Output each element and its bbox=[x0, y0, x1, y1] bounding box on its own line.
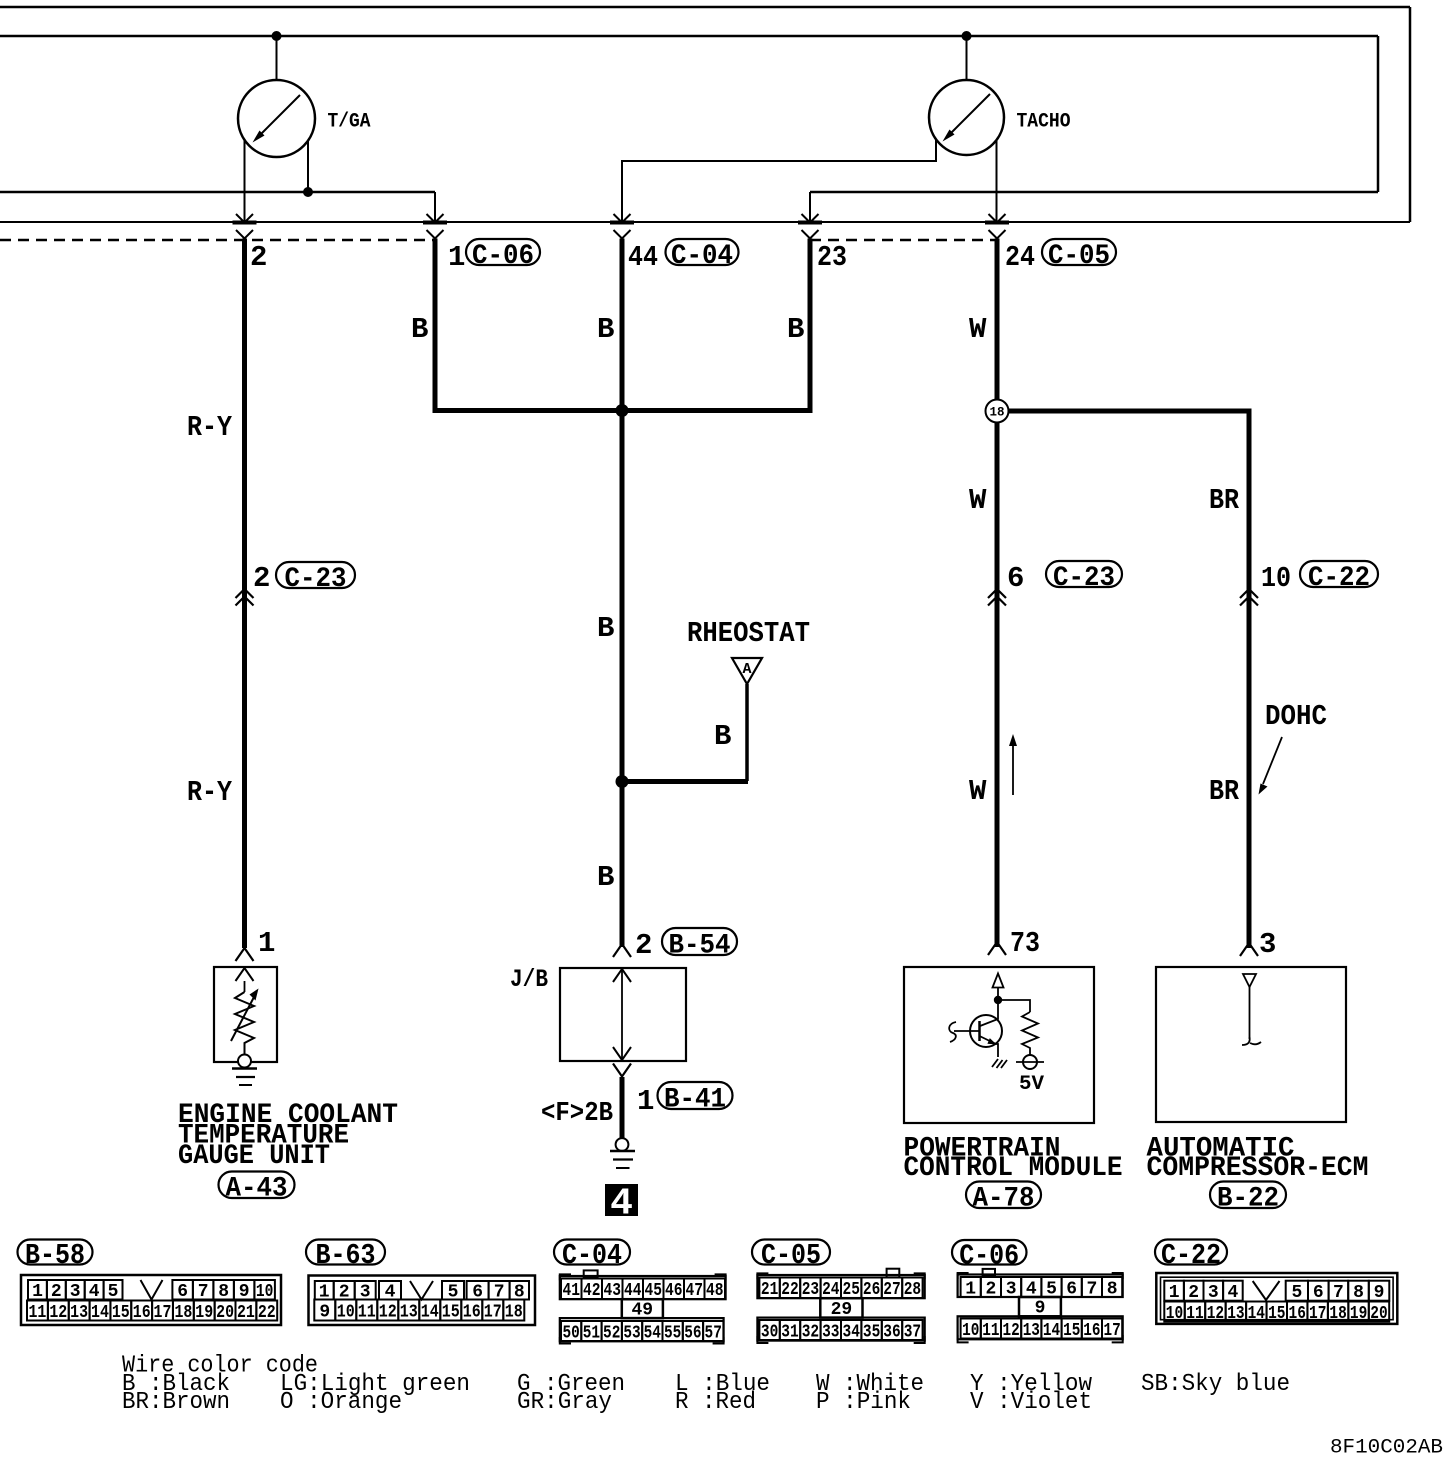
svg-text:6: 6 bbox=[177, 1282, 188, 1302]
svg-text:27: 27 bbox=[883, 1280, 900, 1300]
label 2 C-23 bbox=[253, 562, 270, 595]
svg-text:73: 73 bbox=[1010, 927, 1040, 960]
powertrain control module box A-78 bbox=[904, 967, 1094, 1123]
wire W vertical x997 lower bbox=[995, 423, 1000, 948]
svg-text:21: 21 bbox=[237, 1303, 255, 1323]
label DOHC bbox=[1265, 700, 1327, 733]
svg-text:6: 6 bbox=[1007, 562, 1024, 595]
svg-text:34: 34 bbox=[843, 1323, 861, 1343]
svg-text:24: 24 bbox=[1005, 241, 1035, 274]
svg-text:C-23: C-23 bbox=[1053, 563, 1115, 594]
svg-text:35: 35 bbox=[863, 1323, 880, 1343]
5V supply symbol bbox=[1016, 1055, 1044, 1069]
connector ref C-23 left bbox=[276, 562, 355, 595]
svg-text:2: 2 bbox=[1188, 1283, 1199, 1303]
svg-text:11: 11 bbox=[358, 1303, 376, 1323]
connector ref A-78 bbox=[966, 1182, 1041, 1215]
svg-text:6: 6 bbox=[1313, 1283, 1324, 1303]
ground terminal circle J/B bbox=[616, 1138, 629, 1151]
connector 10 C-22 chevrons bbox=[1240, 589, 1258, 606]
svg-text:B: B bbox=[787, 313, 804, 346]
svg-text:J/B: J/B bbox=[510, 965, 548, 994]
ground J/B bbox=[610, 1151, 635, 1168]
svg-text:5: 5 bbox=[1291, 1283, 1302, 1303]
rheostat terminal A triangle bbox=[732, 658, 762, 684]
svg-text:B: B bbox=[597, 612, 614, 645]
label wire color BR lower bbox=[1209, 775, 1240, 808]
svg-text:15: 15 bbox=[1063, 1321, 1080, 1341]
connector ref B-41 bbox=[658, 1082, 733, 1115]
connector arrow pin 1 C-06 bbox=[423, 214, 447, 239]
wire W vertical x997 upper bbox=[995, 239, 1000, 401]
label pin 44 bbox=[628, 241, 658, 274]
svg-text:9: 9 bbox=[319, 1303, 330, 1323]
svg-text:16: 16 bbox=[463, 1303, 481, 1323]
svg-text:15: 15 bbox=[112, 1303, 130, 1323]
wire to pull-up resistor bbox=[998, 1000, 1030, 1012]
svg-text:5: 5 bbox=[108, 1282, 119, 1302]
svg-text:C-04: C-04 bbox=[562, 1239, 622, 1272]
svg-text:COMPRESSOR-ECM: COMPRESSOR-ECM bbox=[1147, 1153, 1369, 1184]
connector ref C-06 top bbox=[466, 239, 540, 272]
svg-text:14: 14 bbox=[1043, 1321, 1060, 1341]
svg-text:18: 18 bbox=[989, 406, 1004, 420]
chevron into A-43 box bbox=[236, 968, 254, 981]
svg-text:11: 11 bbox=[1186, 1304, 1204, 1324]
connector ref C-04 bottom bbox=[554, 1239, 630, 1272]
svg-text:11: 11 bbox=[982, 1321, 999, 1341]
svg-text:DOHC: DOHC bbox=[1265, 700, 1327, 733]
connector ref C-22 mid bbox=[1300, 561, 1378, 594]
variable resistor A-43 bbox=[231, 981, 259, 1055]
svg-text:12: 12 bbox=[1003, 1321, 1020, 1341]
connector ref B-54 bbox=[662, 928, 737, 961]
label 1 B-41 bbox=[637, 1085, 654, 1118]
legend wire color code bbox=[122, 1353, 1290, 1417]
svg-text:R-Y: R-Y bbox=[187, 776, 233, 809]
splice circle 18 bbox=[986, 400, 1009, 423]
svg-text:3: 3 bbox=[1208, 1283, 1219, 1303]
svg-text:GAUGE UNIT: GAUGE UNIT bbox=[178, 1141, 330, 1172]
svg-text:26: 26 bbox=[863, 1280, 880, 1300]
svg-text:8: 8 bbox=[1107, 1280, 1118, 1300]
wire R-Y vertical x245 bbox=[242, 239, 247, 949]
svg-text:2: 2 bbox=[250, 241, 267, 274]
svg-text:16: 16 bbox=[1083, 1321, 1100, 1341]
svg-text:C-22: C-22 bbox=[1308, 563, 1370, 594]
svg-text:B: B bbox=[597, 861, 614, 894]
gauge TACHO bbox=[929, 80, 1004, 155]
svg-text:V :Violet: V :Violet bbox=[970, 1389, 1092, 1416]
connector ref C-23 right bbox=[1046, 561, 1122, 594]
label pin 23 bbox=[817, 241, 847, 274]
wire rheostat drop bbox=[745, 684, 749, 781]
wire through J/B bbox=[613, 968, 631, 1061]
svg-text:43: 43 bbox=[603, 1281, 621, 1301]
resistor pull-up bbox=[1022, 1012, 1038, 1055]
svg-text:18: 18 bbox=[505, 1303, 523, 1323]
svg-text:1: 1 bbox=[448, 241, 465, 274]
gauge T/GA bbox=[238, 80, 315, 157]
label wire color W lower bbox=[969, 775, 987, 808]
svg-text:23: 23 bbox=[817, 241, 847, 274]
wire BR branch bbox=[1009, 411, 1250, 948]
label AUTOMATIC COMPRESSOR-ECM bbox=[1147, 1134, 1369, 1185]
document code 8F10C02AB bbox=[1330, 1437, 1443, 1460]
connector ref B-63 bottom bbox=[306, 1239, 385, 1272]
svg-text:31: 31 bbox=[781, 1323, 799, 1343]
svg-text:56: 56 bbox=[684, 1324, 701, 1344]
svg-text:10: 10 bbox=[962, 1321, 979, 1341]
svg-text:19: 19 bbox=[195, 1303, 213, 1323]
automatic compressor ECM box B-22 bbox=[1156, 967, 1346, 1122]
svg-text:8: 8 bbox=[1353, 1283, 1364, 1303]
svg-text:15: 15 bbox=[442, 1303, 460, 1323]
svg-text:BR:Brown: BR:Brown bbox=[122, 1389, 230, 1416]
svg-text:4: 4 bbox=[89, 1282, 100, 1302]
svg-text:8F10C02AB: 8F10C02AB bbox=[1330, 1437, 1443, 1460]
connector arrow pin 23 bbox=[798, 214, 822, 239]
label 6 C-23 bbox=[1007, 562, 1024, 595]
connector arrow 73 PCM bbox=[988, 942, 1006, 955]
wire dashed harness boundary bbox=[0, 239, 997, 242]
svg-text:12: 12 bbox=[49, 1303, 67, 1323]
svg-text:C-06: C-06 bbox=[472, 241, 534, 272]
svg-text:B: B bbox=[597, 313, 614, 346]
connector arrow 3 ECM bbox=[1240, 943, 1258, 956]
label POWERTRAIN CONTROL MODULE bbox=[904, 1134, 1123, 1185]
svg-text:BR: BR bbox=[1209, 775, 1240, 808]
svg-text:50: 50 bbox=[562, 1324, 579, 1344]
svg-text:17: 17 bbox=[154, 1303, 172, 1323]
svg-text:1: 1 bbox=[1169, 1283, 1180, 1303]
wire pin23 lead bbox=[809, 192, 811, 221]
label RHEOSTAT bbox=[687, 617, 810, 650]
label ENGINE COOLANT TEMPERATURE GAUGE UNIT bbox=[178, 1100, 398, 1172]
ECM input triangle and probe bbox=[1242, 974, 1261, 1045]
wire bus bottom thin line bbox=[0, 221, 1410, 223]
svg-text:1: 1 bbox=[258, 927, 275, 960]
svg-text:18: 18 bbox=[1329, 1304, 1346, 1324]
connector pinout C-04 bbox=[560, 1270, 726, 1343]
svg-text:4: 4 bbox=[1227, 1283, 1238, 1303]
svg-text:13: 13 bbox=[400, 1303, 418, 1323]
wire bus top line bbox=[0, 7, 1410, 222]
connector pinout B-63 bbox=[309, 1276, 536, 1326]
ground ref black box 4 bbox=[605, 1183, 638, 1226]
connector arrow pin 44 C-04 bbox=[610, 214, 634, 239]
connector ref C-05 bottom bbox=[752, 1239, 830, 1272]
svg-text:17: 17 bbox=[484, 1303, 502, 1323]
svg-text:20: 20 bbox=[1370, 1304, 1387, 1324]
svg-text:46: 46 bbox=[665, 1281, 683, 1301]
svg-text:47: 47 bbox=[685, 1281, 703, 1301]
svg-text:20: 20 bbox=[216, 1303, 234, 1323]
svg-text:B-58: B-58 bbox=[25, 1239, 85, 1272]
svg-text:7: 7 bbox=[1086, 1280, 1097, 1300]
svg-text:<F>2B: <F>2B bbox=[541, 1099, 613, 1129]
svg-text:22: 22 bbox=[258, 1303, 276, 1323]
svg-text:A-43: A-43 bbox=[226, 1174, 288, 1205]
label pin 3 bbox=[1259, 928, 1276, 961]
connector arrow pin 1 A-43 bbox=[236, 948, 254, 961]
svg-text:41: 41 bbox=[562, 1281, 580, 1301]
label wire color R-Y upper bbox=[187, 411, 233, 444]
svg-text:B: B bbox=[411, 313, 428, 346]
svg-text:12: 12 bbox=[1207, 1304, 1224, 1324]
label 10 C-22 bbox=[1261, 562, 1291, 595]
svg-text:B-54: B-54 bbox=[669, 930, 731, 961]
svg-text:GR:Gray: GR:Gray bbox=[517, 1389, 612, 1416]
svg-text:53: 53 bbox=[623, 1324, 640, 1344]
svg-text:2: 2 bbox=[635, 929, 652, 962]
svg-text:3: 3 bbox=[1259, 928, 1276, 961]
wire B from pin1 to junction bbox=[435, 239, 622, 411]
svg-text:10: 10 bbox=[1261, 562, 1291, 595]
svg-text:28: 28 bbox=[904, 1280, 921, 1300]
svg-text:16: 16 bbox=[133, 1303, 151, 1323]
label wire color B pin44 bbox=[597, 313, 614, 346]
svg-text:C-05: C-05 bbox=[1048, 241, 1110, 272]
svg-text:RHEOSTAT: RHEOSTAT bbox=[687, 617, 810, 650]
ground terminal circle A-43 bbox=[238, 1055, 251, 1068]
svg-text:13: 13 bbox=[1227, 1304, 1244, 1324]
svg-text:1: 1 bbox=[32, 1282, 43, 1302]
connector ref B-22 bbox=[1210, 1182, 1286, 1215]
svg-text:48: 48 bbox=[706, 1281, 724, 1301]
svg-text:54: 54 bbox=[644, 1324, 661, 1344]
connector arrow 2 B-54 bbox=[613, 944, 631, 957]
svg-text:4: 4 bbox=[610, 1183, 633, 1226]
label pin 2 bbox=[250, 241, 267, 274]
wire TACHO bottom-right lead bbox=[996, 140, 998, 221]
label pin 1 A-43 bbox=[258, 927, 275, 960]
wire rheostat horizontal bbox=[622, 779, 748, 784]
junction dot rheostat bbox=[616, 775, 629, 788]
svg-text:9: 9 bbox=[239, 1282, 250, 1302]
connector ref C-04 top bbox=[666, 239, 739, 272]
svg-text:18: 18 bbox=[174, 1303, 192, 1323]
svg-text:8: 8 bbox=[218, 1282, 229, 1302]
connector pinout B-58 bbox=[21, 1275, 281, 1325]
label wire color B mid bbox=[597, 612, 614, 645]
svg-text:10: 10 bbox=[337, 1303, 355, 1323]
svg-text:SB:Sky blue: SB:Sky blue bbox=[1141, 1371, 1290, 1398]
connector arrow 1 B-41 bbox=[613, 1064, 631, 1077]
svg-text:1: 1 bbox=[637, 1085, 654, 1118]
PCM input triangle bbox=[993, 974, 1004, 988]
svg-text:33: 33 bbox=[822, 1323, 839, 1343]
junction dot node y192 bbox=[303, 187, 313, 197]
svg-text:13: 13 bbox=[70, 1303, 88, 1323]
svg-text:W: W bbox=[969, 484, 987, 517]
svg-text:51: 51 bbox=[583, 1324, 600, 1344]
wire left inner horizontal bbox=[0, 191, 435, 194]
svg-text:W: W bbox=[969, 775, 987, 808]
label wire color B pin1 bbox=[411, 313, 428, 346]
svg-text:13: 13 bbox=[1023, 1321, 1040, 1341]
svg-text:O :Orange: O :Orange bbox=[280, 1389, 402, 1416]
wire B from pin23 to junction bbox=[622, 239, 810, 411]
svg-text:11: 11 bbox=[28, 1303, 46, 1323]
wire B-41 stub bbox=[620, 1077, 625, 1138]
svg-text:7: 7 bbox=[198, 1282, 209, 1302]
junction dot T/GA top bbox=[272, 31, 282, 41]
connector pinout C-05 bbox=[757, 1269, 924, 1343]
svg-text:15: 15 bbox=[1268, 1304, 1285, 1324]
label pin 73 bbox=[1010, 927, 1040, 960]
svg-text:R :Red: R :Red bbox=[675, 1389, 756, 1416]
wire TACHO top lead bbox=[966, 36, 968, 80]
DOHC pointer arrow bbox=[1259, 737, 1283, 795]
label wire color R-Y lower bbox=[187, 776, 233, 809]
connector 2 C-23 chevrons bbox=[236, 589, 254, 606]
svg-text:10: 10 bbox=[256, 1282, 274, 1302]
connector arrow pin 24 C-05 bbox=[985, 214, 1009, 239]
svg-text:10: 10 bbox=[1166, 1304, 1183, 1324]
label pin 1 bbox=[448, 241, 465, 274]
svg-text:A: A bbox=[742, 661, 751, 678]
svg-text:C-05: C-05 bbox=[761, 1239, 821, 1272]
svg-text:C-23: C-23 bbox=[285, 564, 347, 595]
svg-text:42: 42 bbox=[583, 1281, 601, 1301]
svg-text:57: 57 bbox=[705, 1324, 722, 1344]
connector 6 C-23 chevrons bbox=[988, 589, 1006, 606]
label wire color B lower bbox=[597, 861, 614, 894]
label 5V bbox=[1019, 1073, 1044, 1096]
svg-text:19: 19 bbox=[1350, 1304, 1367, 1324]
node PCM collector bbox=[994, 988, 1002, 1005]
svg-text:TACHO: TACHO bbox=[1017, 111, 1071, 134]
label wire color W mid bbox=[969, 484, 987, 517]
connector ref C-05 top bbox=[1042, 239, 1116, 272]
connector ref C-22 bottom bbox=[1155, 1239, 1227, 1272]
svg-text:14: 14 bbox=[421, 1303, 439, 1323]
flow arrow up W wire bbox=[1009, 734, 1017, 795]
label TACHO bbox=[1017, 111, 1071, 134]
svg-text:30: 30 bbox=[761, 1323, 778, 1343]
svg-text:B-22: B-22 bbox=[1217, 1184, 1279, 1215]
ECT gauge unit box A-43 bbox=[214, 967, 277, 1062]
ground PCM hatched bbox=[992, 1059, 1007, 1068]
svg-text:2: 2 bbox=[253, 562, 270, 595]
svg-text:37: 37 bbox=[904, 1323, 921, 1343]
connector pinout C-06 bbox=[958, 1269, 1123, 1343]
svg-text:C-06: C-06 bbox=[959, 1239, 1019, 1272]
label wire color BR upper bbox=[1209, 484, 1240, 517]
svg-text:B: B bbox=[714, 720, 731, 753]
svg-text:B-63: B-63 bbox=[316, 1239, 376, 1272]
svg-text:C-22: C-22 bbox=[1161, 1239, 1221, 1272]
junction dot TACHO top bbox=[962, 31, 972, 41]
label wire color W pin24 bbox=[969, 313, 987, 346]
svg-text:16: 16 bbox=[1289, 1304, 1306, 1324]
wire pin1 lead bbox=[434, 192, 436, 221]
svg-text:9: 9 bbox=[1374, 1283, 1385, 1303]
svg-text:3: 3 bbox=[1006, 1280, 1017, 1300]
svg-text:17: 17 bbox=[1104, 1321, 1121, 1341]
svg-text:W: W bbox=[969, 313, 987, 346]
junction dot B wires bbox=[616, 404, 629, 417]
connector arrow pin 2 bbox=[233, 214, 257, 239]
connector pinout C-22 bbox=[1156, 1273, 1397, 1324]
svg-text:R-Y: R-Y bbox=[187, 411, 233, 444]
svg-text:55: 55 bbox=[664, 1324, 681, 1344]
wire T/GA top lead bbox=[276, 36, 278, 81]
wire TACHO bottom-left lead to pin 44 bbox=[622, 140, 936, 221]
label F 2B fuse bbox=[541, 1099, 613, 1129]
svg-text:A-78: A-78 bbox=[973, 1184, 1035, 1215]
label 2 B-54 bbox=[635, 929, 652, 962]
junction block box bbox=[560, 968, 686, 1061]
connector ref A-43 bbox=[219, 1172, 295, 1205]
svg-text:2: 2 bbox=[51, 1282, 62, 1302]
svg-text:14: 14 bbox=[91, 1303, 109, 1323]
connector ref C-06 bottom bbox=[952, 1239, 1027, 1272]
svg-text:12: 12 bbox=[379, 1303, 397, 1323]
svg-text:21: 21 bbox=[761, 1280, 779, 1300]
svg-text:23: 23 bbox=[802, 1280, 819, 1300]
svg-text:32: 32 bbox=[802, 1323, 819, 1343]
label J/B bbox=[510, 965, 548, 994]
svg-text:BR: BR bbox=[1209, 484, 1240, 517]
svg-text:5V: 5V bbox=[1019, 1073, 1044, 1096]
ground A-43 bbox=[232, 1069, 257, 1086]
svg-text:P :Pink: P :Pink bbox=[816, 1389, 911, 1416]
svg-text:2: 2 bbox=[985, 1280, 996, 1300]
svg-text:17: 17 bbox=[1309, 1304, 1326, 1324]
connector ref B-58 bottom bbox=[18, 1239, 93, 1272]
svg-text:3: 3 bbox=[70, 1282, 81, 1302]
svg-text:22: 22 bbox=[781, 1280, 798, 1300]
wire B vertical x622 bbox=[620, 239, 625, 948]
svg-text:36: 36 bbox=[883, 1323, 900, 1343]
svg-text:B-41: B-41 bbox=[664, 1084, 726, 1115]
svg-text:CONTROL MODULE: CONTROL MODULE bbox=[904, 1153, 1123, 1184]
svg-text:1: 1 bbox=[965, 1280, 976, 1300]
svg-text:7: 7 bbox=[1333, 1283, 1344, 1303]
wire T/GA right lead bbox=[307, 141, 309, 192]
label wire color B rheostat bbox=[714, 720, 731, 753]
label T/GA bbox=[328, 111, 371, 134]
svg-text:44: 44 bbox=[628, 241, 658, 274]
label pin 24 bbox=[1005, 241, 1035, 274]
wire bus second line bbox=[0, 36, 1378, 192]
label wire color B pin23 bbox=[787, 313, 804, 346]
svg-text:14: 14 bbox=[1248, 1304, 1266, 1324]
svg-text:52: 52 bbox=[603, 1324, 620, 1344]
svg-text:C-04: C-04 bbox=[671, 241, 733, 272]
svg-text:T/GA: T/GA bbox=[328, 111, 371, 134]
svg-text:6: 6 bbox=[1066, 1280, 1077, 1300]
wire T/GA left lead bbox=[244, 140, 246, 221]
transistor Q PCM bbox=[949, 1000, 1002, 1057]
